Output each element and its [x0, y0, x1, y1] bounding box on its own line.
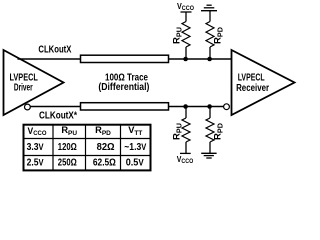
svg-text:(Differential): (Differential) — [98, 82, 149, 93]
op-amp driver U1 LVPECL Driver — [4, 50, 64, 115]
resistor Rpu bottom — [182, 118, 190, 142]
wire node to Rpd bottom — [209, 107, 211, 119]
inversion bubble on driver output CLKoutX* — [25, 104, 31, 110]
wire Vcco to Rpu top — [185, 12, 187, 22]
label 100 Ohm Trace (Differential) — [98, 73, 149, 93]
transmission line box bottom (100 ohm trace) — [81, 103, 169, 110]
junction node bottom Rpu — [183, 104, 188, 109]
ground top — [201, 5, 217, 11]
svg-text:82Ω: 82Ω — [97, 142, 115, 153]
resistor Rpd bottom — [206, 118, 214, 142]
wire CLKoutX* from driver bubble to trace — [30, 106, 81, 108]
ground bottom — [201, 153, 216, 158]
resistor Rpu top — [182, 22, 190, 48]
power Vcco bottom — [177, 153, 194, 165]
svg-text:CLKoutX: CLKoutX — [38, 44, 71, 55]
svg-text:2.5V: 2.5V — [27, 158, 44, 169]
wire Rpd top to node — [209, 47, 211, 59]
transmission line box top (100 ohm trace) — [81, 55, 169, 62]
svg-text:RPU: RPU — [172, 123, 184, 140]
svg-text:Receiver: Receiver — [236, 83, 269, 94]
wire Rpu bottom to Vcco — [185, 142, 187, 153]
wire CLKoutX from driver to trace — [18, 58, 82, 60]
inversion bubble on receiver input — [224, 104, 230, 110]
power Vcco top — [177, 1, 194, 12]
svg-text:VCCO: VCCO — [177, 1, 194, 12]
svg-text:~1.3V: ~1.3V — [124, 142, 146, 153]
wire bottom trace to receiver bubble — [169, 106, 224, 108]
junction node top Rpu — [183, 57, 188, 62]
svg-text:RPU: RPU — [172, 27, 184, 44]
table of termination values — [24, 125, 151, 171]
label LVPECL Driver — [9, 73, 38, 94]
op-amp receiver U2 LVPECL Receiver — [232, 50, 295, 115]
svg-text:62.5Ω: 62.5Ω — [93, 158, 116, 169]
svg-text:CLKoutX*: CLKoutX* — [39, 110, 77, 121]
svg-text:RPD: RPD — [213, 27, 225, 44]
svg-text:VCCO: VCCO — [177, 154, 194, 165]
svg-text:120Ω: 120Ω — [58, 142, 77, 153]
svg-text:250Ω: 250Ω — [58, 158, 77, 169]
wire top trace to receiver — [169, 58, 232, 60]
label LVPECL Receiver — [236, 73, 269, 95]
svg-text:3.3V: 3.3V — [27, 142, 44, 153]
wire node to Rpu bottom — [185, 107, 187, 119]
wire Rpu top to node — [185, 47, 187, 59]
junction node top Rpd — [207, 57, 212, 62]
junction node bottom Rpd — [207, 104, 212, 109]
wire ground to Rpd top — [209, 11, 211, 22]
resistor Rpd top — [206, 22, 214, 48]
svg-text:LVPECL: LVPECL — [238, 73, 265, 84]
svg-text:0.5V: 0.5V — [126, 158, 144, 169]
wire Rpd bottom to ground — [209, 142, 211, 153]
svg-text:Driver: Driver — [14, 83, 33, 94]
